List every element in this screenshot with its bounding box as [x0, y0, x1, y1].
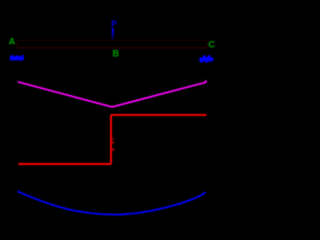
moment diagram (magenta V) [18, 80, 207, 107]
small marks on shear jump [112, 138, 115, 150]
deflection curve (blue) [18, 191, 206, 214]
shear diagram upper segment [111, 114, 207, 116]
beam bottom edge highlight [17, 47, 207, 49]
load arrow shaft lower fade [112, 34, 114, 38]
shear diagram jump at B [110, 115, 112, 164]
svg-text:B: B [113, 49, 120, 59]
svg-text:P: P [111, 20, 117, 29]
load arrow head [111, 36, 115, 40]
shear diagram lower segment [18, 163, 111, 165]
support at A [10, 55, 24, 61]
svg-text:A: A [9, 36, 16, 46]
load arrow shaft [112, 28, 114, 35]
beam outline (member A-C) [17, 40, 207, 47]
support at C [199, 55, 213, 62]
svg-text:C: C [208, 40, 215, 50]
